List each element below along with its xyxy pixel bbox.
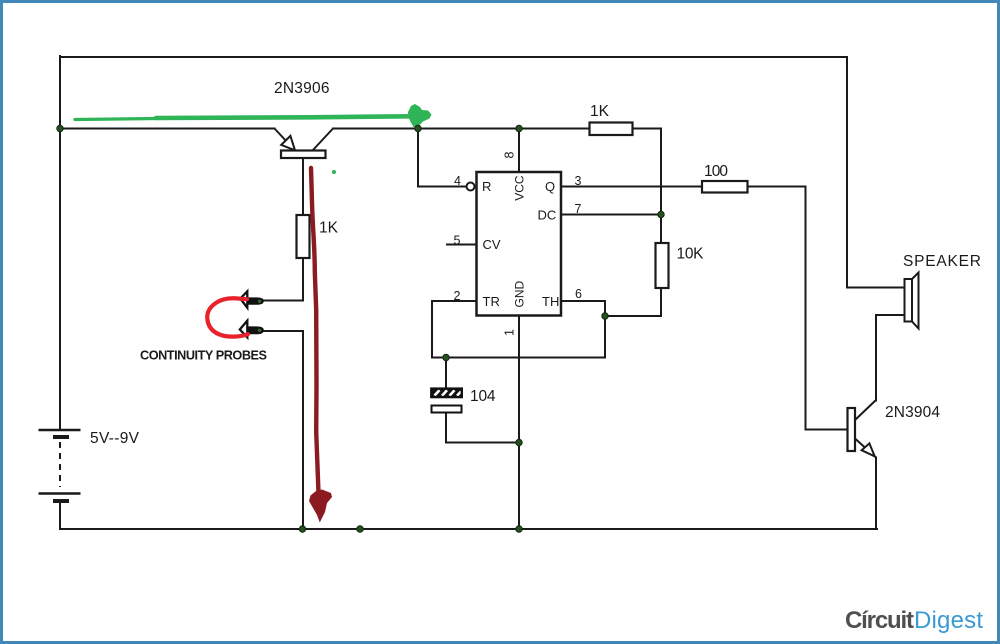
wire GND pin1 drop: [518, 316, 520, 530]
svg-text:TR: TR: [483, 294, 500, 309]
wire CV pin5 stub: [447, 244, 476, 246]
wire 1K resistor to probe: [264, 258, 303, 301]
node DC pin7: [658, 211, 664, 217]
dark red current path arrow annotation: [309, 168, 332, 523]
green current path arrow annotation: [75, 104, 432, 127]
speaker LS1: [905, 273, 919, 329]
wire VCC rail y128 mid segment: [333, 128, 590, 130]
op-amp U1 555 timer body: [477, 172, 562, 316]
node reset branch: [415, 125, 421, 131]
svg-text:VCC: VCC: [513, 175, 527, 201]
svg-text:104: 104: [470, 388, 496, 405]
wire battery bottom lead: [59, 503, 61, 529]
probe P1 upper: [240, 291, 263, 307]
resistor R4 10K: [656, 243, 669, 288]
svg-text:Q: Q: [545, 179, 555, 194]
svg-text:10K: 10K: [677, 246, 705, 263]
svg-text:CV: CV: [483, 237, 501, 252]
wire Q pin3 to 100 resistor: [561, 186, 702, 188]
svg-text:4: 4: [454, 174, 461, 188]
svg-text:2N3904: 2N3904: [885, 404, 940, 421]
svg-text:CONTINUITY PROBES: CONTINUITY PROBES: [140, 349, 267, 363]
wire VCC rail y128 left segment: [60, 128, 275, 130]
wire TH pin6: [561, 301, 605, 358]
wire TR pin2 loop: [432, 301, 605, 358]
node GND bottom rail: [516, 526, 522, 532]
node bottom rail mid: [357, 526, 363, 532]
node probe bottom rail: [299, 526, 305, 532]
svg-text:1K: 1K: [319, 220, 339, 237]
wire VCC rail y128 right segment: [633, 128, 662, 130]
wire speaker bottom to Q2 collector: [876, 315, 904, 401]
svg-text:DC: DC: [538, 208, 557, 223]
svg-text:6: 6: [575, 287, 582, 301]
svg-text:1: 1: [503, 329, 517, 336]
wire top rail: [60, 56, 847, 58]
wire Q2 emitter to bottom rail: [875, 458, 877, 530]
capacitor C1 104 top plate: [431, 389, 462, 398]
resistor R3 100: [702, 181, 748, 193]
svg-text:TH: TH: [542, 294, 559, 309]
transistor Q2 2N3904: [848, 400, 877, 458]
resistor R2 1K horizontal: [590, 123, 633, 136]
wire 10K bottom lead to TH node: [605, 288, 661, 316]
svg-text:GND: GND: [513, 281, 527, 308]
svg-text:100: 100: [704, 163, 728, 180]
probe P2 lower: [240, 321, 264, 338]
wire 100 resistor to base vertical: [748, 187, 848, 430]
svg-text:8: 8: [503, 152, 517, 159]
wire left vertical to battery: [59, 56, 61, 429]
pin 4 inversion bubble: [467, 183, 475, 191]
svg-text:7: 7: [575, 202, 582, 216]
node TH junction: [602, 313, 608, 319]
svg-text:3: 3: [575, 174, 582, 188]
svg-text:Círcuit: Círcuit: [845, 607, 914, 634]
node capacitor bottom: [516, 439, 522, 445]
resistor R1 1K vertical: [297, 215, 310, 258]
svg-text:R: R: [482, 179, 491, 194]
svg-text:2N3906: 2N3906: [274, 80, 330, 97]
wire lower probe to bottom rail: [264, 331, 303, 529]
svg-text:2: 2: [454, 289, 461, 303]
wire VCC pin 8 drop: [518, 129, 520, 173]
svg-text:Digest: Digest: [914, 607, 983, 634]
transistor Q1 2N3906: [275, 129, 334, 159]
wire 10K top lead: [660, 215, 662, 244]
wire capacitor top lead: [445, 358, 447, 389]
green speck: [332, 170, 336, 174]
svg-text:1K: 1K: [590, 103, 610, 120]
svg-text:5: 5: [454, 234, 461, 248]
wire Q1 collector to 1K resistor: [302, 159, 304, 216]
wire capacitor bottom lead: [446, 413, 519, 443]
wire reset pin 4 branch: [418, 129, 467, 187]
wire 1K to DC node drop: [660, 129, 662, 215]
battery BT1: [39, 430, 81, 501]
wire right vertical to speaker: [847, 57, 904, 288]
node VCC rail left: [57, 125, 63, 131]
wire bottom rail: [60, 528, 877, 530]
svg-text:SPEAKER: SPEAKER: [903, 253, 981, 270]
node capacitor top: [443, 354, 449, 360]
wire DC pin7: [561, 214, 661, 216]
svg-text:5V--9V: 5V--9V: [90, 430, 140, 447]
red probe jumper annotation: [207, 298, 248, 336]
capacitor C1 bottom plate: [432, 406, 462, 413]
node VCC pin8: [516, 125, 522, 131]
